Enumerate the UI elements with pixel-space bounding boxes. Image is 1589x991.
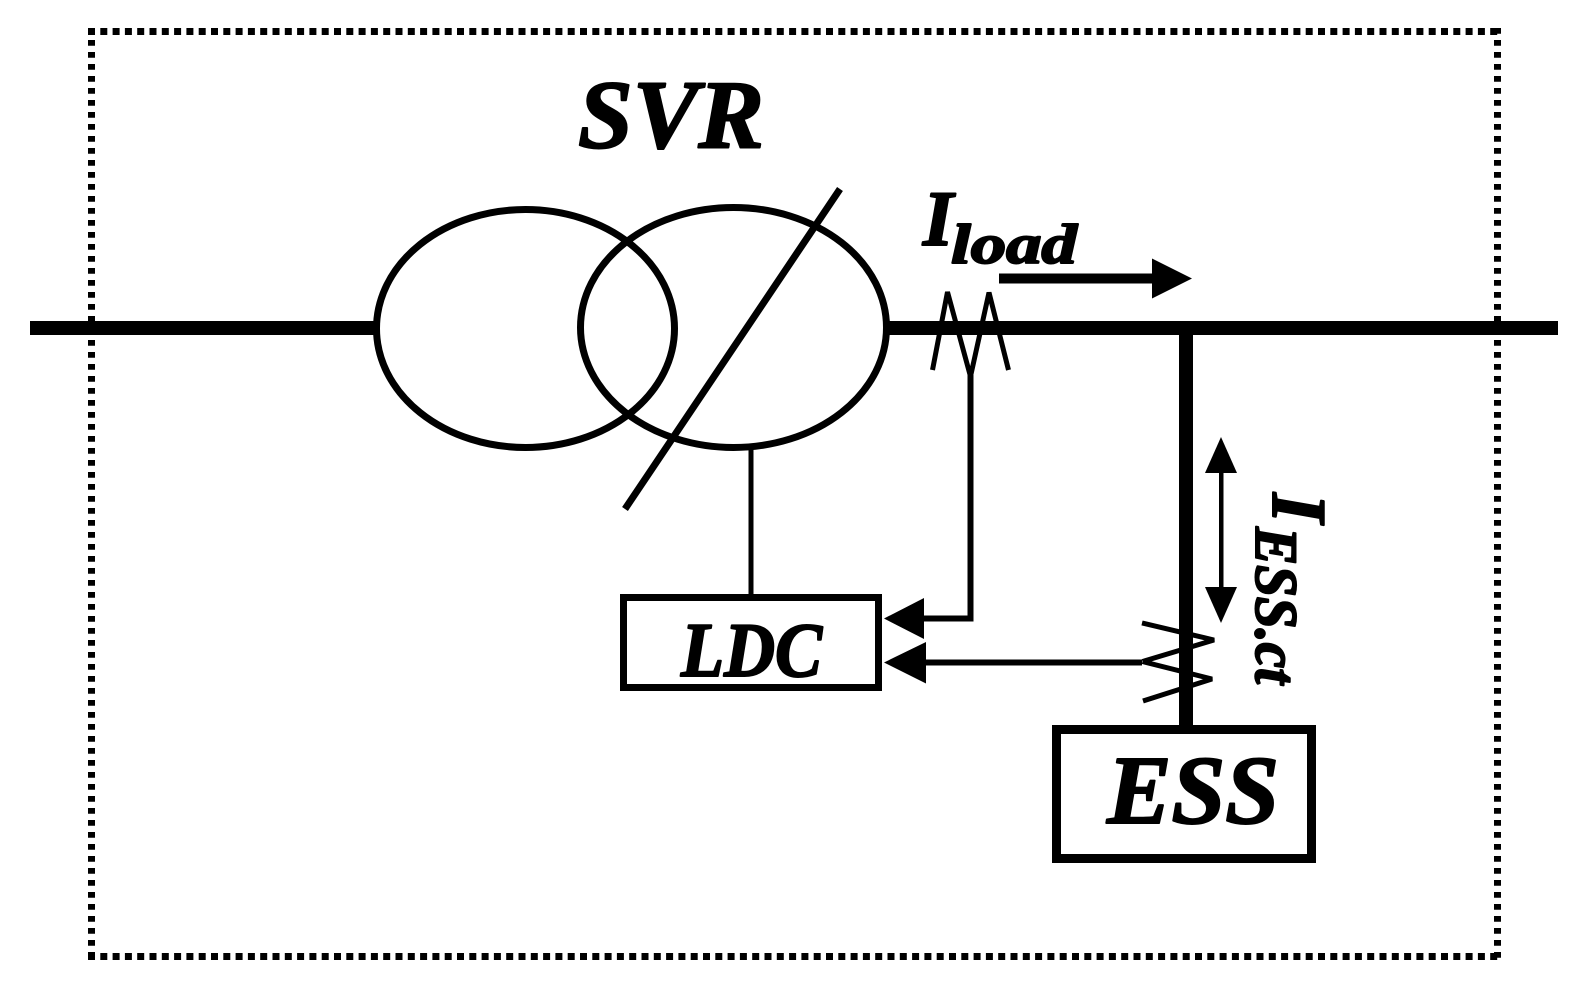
svg-text:ESS: ESS [1106,737,1279,844]
svg-text:LDC: LDC [680,607,823,693]
svg-text:I: I [1256,492,1342,526]
svg-text:SVR: SVR [578,62,764,170]
svg-text:load: load [951,214,1078,276]
svg-text:ESS.ct: ESS.ct [1243,526,1309,686]
